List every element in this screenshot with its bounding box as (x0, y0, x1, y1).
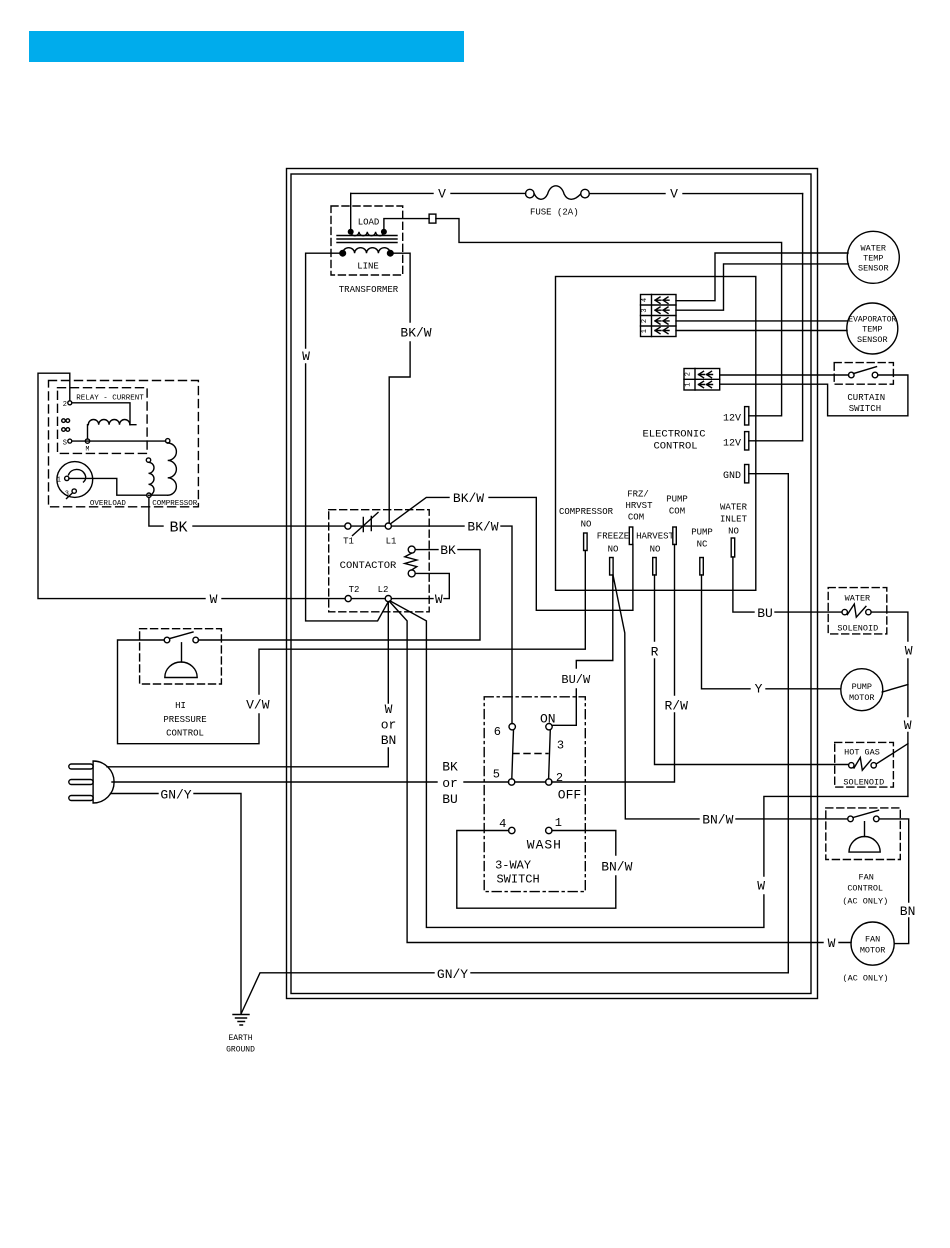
svg-text:(AC ONLY): (AC ONLY) (842, 897, 888, 907)
wire transformer load right to holder box (384, 219, 429, 232)
svg-text:CONTROL: CONTROL (166, 729, 204, 739)
wire freeze NO to 3-way switch terminal 3 (BU/W) (552, 575, 613, 725)
svg-text:4: 4 (641, 298, 649, 302)
relay - current (58, 388, 148, 454)
pin HARVEST NO (636, 532, 674, 576)
svg-text:(AC ONLY): (AC ONLY) (843, 974, 889, 984)
wire hot gas right to W bus (876, 744, 908, 764)
svg-text:4: 4 (499, 817, 506, 831)
svg-text:2: 2 (63, 401, 67, 409)
svg-text:BK: BK (169, 520, 187, 537)
svg-text:BU: BU (442, 792, 458, 807)
svg-text:GN/Y: GN/Y (160, 788, 191, 803)
wire GND to GN/Y bus (241, 474, 788, 1014)
svg-text:HRVST: HRVST (625, 501, 653, 511)
water solenoid L2V (828, 588, 887, 634)
svg-text:BN/W: BN/W (702, 813, 733, 828)
svg-text:GND: GND (723, 471, 741, 482)
svg-text:CONTACTOR: CONTACTOR (340, 560, 397, 572)
svg-text:HI: HI (175, 701, 186, 711)
terminal 1 (546, 827, 552, 833)
svg-text:5: 5 (493, 768, 500, 782)
svg-text:GROUND: GROUND (226, 1046, 255, 1055)
wire relay S to compressor start (72, 440, 166, 442)
contactor L2 terminal (385, 596, 391, 602)
wire: transformer load left to V line (350, 193, 352, 231)
fan control S4 (826, 808, 901, 907)
water temp sensor (847, 231, 899, 283)
hot gas solenoid L1V (835, 742, 894, 787)
terminal 12V upper (745, 407, 749, 425)
svg-text:NO: NO (581, 520, 592, 530)
fan motor M2 (843, 922, 895, 984)
wire L2 to fan motor (W) (390, 602, 852, 943)
svg-text:PUMP: PUMP (666, 495, 688, 505)
svg-text:2: 2 (556, 771, 563, 785)
wire L2 to plug neutral (W or BN) (107, 602, 388, 767)
power plug P1 (69, 761, 114, 803)
wire connector pin2 to evaporator sensor (676, 320, 848, 322)
wire 2-pin row1 to curtain switch right (720, 375, 908, 416)
svg-text:ELECTRONIC: ELECTRONIC (642, 429, 705, 441)
wire contactor coil top to hi pressure control (BK) (199, 550, 481, 640)
header blue bar (29, 31, 464, 62)
wire pump motor right to W bus (882, 685, 908, 693)
terminal 6 (509, 724, 515, 730)
svg-text:COMPRESSOR: COMPRESSOR (152, 500, 198, 508)
terminal 12V lower (745, 432, 749, 450)
contactor coil terminals (408, 546, 415, 553)
svg-text:NO: NO (650, 545, 661, 555)
svg-text:OFF: OFF (558, 788, 581, 803)
wire connector pin4 to water temp sensor (676, 253, 848, 301)
pin FRZ/HRVST COM (625, 490, 653, 545)
transformer secondary coil (351, 232, 384, 236)
wire connector pin1 to evaporator sensor (676, 330, 847, 332)
svg-text:WATER: WATER (845, 594, 871, 604)
wire pump NC to pump motor (Y) (702, 575, 841, 689)
svg-text:RELAY - CURRENT: RELAY - CURRENT (76, 395, 144, 403)
wire harvest NO to hot gas solenoid (R) (655, 575, 849, 765)
blade 3-2 (549, 730, 551, 779)
svg-text:6: 6 (494, 725, 501, 739)
relay spade terminals (62, 419, 66, 423)
svg-text:or: or (381, 718, 397, 733)
svg-text:SOLENOID: SOLENOID (837, 624, 878, 634)
svg-text:BN: BN (900, 904, 916, 919)
svg-text:BK/W: BK/W (453, 491, 484, 506)
curtain switch S2 (834, 363, 893, 414)
transformer dashed box (331, 206, 403, 275)
mechanical link (513, 753, 548, 755)
wire plug line to 3-way switch (BK or BU) (112, 781, 509, 783)
pin COMPRESSOR NO (559, 507, 614, 551)
svg-text:V/W: V/W (246, 698, 270, 713)
svg-text:W: W (904, 718, 912, 733)
svg-text:V: V (670, 187, 678, 202)
wire transformer line right (BK/W) down to contactor L1 (389, 253, 410, 523)
wire fuse to V bus (589, 193, 802, 195)
svg-text:12V: 12V (723, 414, 741, 425)
connector J2 2-pin (684, 369, 720, 391)
svg-text:W: W (385, 702, 393, 717)
svg-text:PUMP: PUMP (691, 528, 713, 538)
svg-text:SOLENOID: SOLENOID (843, 778, 884, 788)
wire L1 to terminal6 (BK/W lower) (391, 526, 512, 723)
svg-text:PUMP: PUMP (852, 682, 872, 692)
svg-text:W: W (757, 879, 765, 894)
svg-text:W: W (905, 644, 913, 659)
svg-text:BK/W: BK/W (400, 326, 431, 341)
relay coil (88, 420, 136, 425)
svg-text:SENSOR: SENSOR (857, 335, 888, 345)
pump motor M1 (841, 669, 883, 711)
svg-text:W: W (210, 592, 218, 607)
hi pressure control S3 (140, 629, 222, 739)
svg-text:3: 3 (65, 491, 69, 499)
wire overload to compressor common (69, 478, 147, 495)
wire water inlet NO to water solenoid (BU) (733, 557, 842, 612)
svg-text:EARTH: EARTH (228, 1034, 252, 1043)
wire T2 to relay terminal2 (W) (38, 373, 345, 598)
wire V bus down right side (802, 194, 804, 441)
svg-text:12V: 12V (723, 439, 741, 450)
fuse holder box (429, 214, 436, 223)
blade 6-5 (512, 730, 514, 779)
svg-text:BK: BK (440, 543, 456, 558)
svg-text:W: W (435, 592, 443, 607)
svg-text:CONTROL: CONTROL (653, 441, 697, 453)
wire transformer line left (W) (306, 253, 389, 621)
svg-text:1: 1 (641, 329, 649, 333)
fuse F1 (2A) (526, 186, 590, 218)
svg-text:LINE: LINE (357, 262, 379, 272)
compressor motor windings (146, 439, 197, 508)
overload protector (57, 462, 127, 508)
svg-text:PRESSURE: PRESSURE (163, 715, 206, 725)
svg-text:ON: ON (540, 712, 556, 727)
svg-text:W: W (302, 349, 310, 364)
svg-text:3: 3 (557, 739, 564, 753)
wire between 5 and 2 (515, 781, 546, 783)
wire freeze NO to fan control (BN/W) (613, 575, 848, 819)
contactor T2 terminal (345, 596, 351, 602)
relay terminal 2 (68, 401, 72, 405)
svg-text:WATER: WATER (861, 244, 887, 254)
svg-text:FAN: FAN (865, 935, 880, 945)
svg-text:FAN: FAN (859, 873, 874, 883)
wire water solenoid to W bus (871, 612, 908, 796)
wire 2-pin row2 to curtain switch left (720, 374, 849, 376)
svg-text:BU: BU (757, 606, 773, 621)
terminal GND (745, 465, 749, 483)
svg-text:LOAD: LOAD (358, 218, 380, 228)
svg-text:TRANSFORMER: TRANSFORMER (339, 285, 399, 295)
relay M terminal (85, 439, 89, 443)
svg-text:M: M (86, 446, 90, 453)
svg-text:HARVEST: HARVEST (636, 532, 674, 542)
svg-text:L2: L2 (378, 585, 389, 595)
svg-text:FREEZE: FREEZE (597, 532, 629, 542)
terminal 2 (546, 779, 552, 785)
svg-text:BN: BN (381, 733, 397, 748)
wire L2 to hot gas W return (390, 601, 908, 928)
compressor unit dashed box (49, 381, 199, 507)
svg-text:BK/W: BK/W (467, 520, 498, 535)
wire 12V lower terminal feed (749, 440, 803, 442)
svg-text:GN/Y: GN/Y (437, 967, 468, 982)
svg-text:MOTOR: MOTOR (849, 693, 875, 703)
relay contact wire (72, 403, 130, 425)
svg-text:V: V (438, 187, 446, 202)
svg-text:CONTROL: CONTROL (847, 884, 883, 894)
svg-text:EVAPORATOR: EVAPORATOR (848, 316, 896, 325)
contactor T1 terminal (345, 523, 351, 529)
svg-text:NC: NC (697, 540, 708, 550)
svg-text:HOT GAS: HOT GAS (844, 748, 880, 758)
wire contactor coil bottom to L2 line (W) (391, 573, 449, 598)
svg-text:NO: NO (608, 545, 619, 555)
wire connector pin3 to water temp sensor (676, 264, 848, 310)
svg-text:OVERLOAD: OVERLOAD (90, 500, 127, 508)
contactor main contact symbol (353, 513, 379, 536)
svg-text:COM: COM (669, 507, 685, 517)
svg-text:COM: COM (628, 513, 644, 523)
svg-text:1: 1 (57, 477, 61, 485)
wire holder box to 12V upper terminal (436, 219, 782, 416)
svg-text:NO: NO (728, 527, 739, 537)
connector J1 4-pin (641, 295, 677, 337)
svg-text:T1: T1 (343, 537, 354, 547)
svg-text:WASH: WASH (527, 838, 562, 853)
svg-text:S: S (63, 440, 67, 448)
svg-text:BK: BK (442, 760, 458, 775)
relay S terminal (68, 439, 72, 443)
evaporator temp sensor (847, 303, 898, 354)
svg-text:2: 2 (641, 319, 649, 323)
3-way switch S1 (484, 697, 585, 892)
svg-text:T2: T2 (349, 585, 360, 595)
svg-text:SWITCH: SWITCH (496, 873, 539, 887)
pin FREEZE NO (597, 532, 629, 576)
svg-text:WATER: WATER (720, 503, 748, 513)
wire pump com to 3-way switch terminal 2 (R/W) (552, 545, 675, 783)
wire fan control to fan motor (BN) (879, 819, 909, 944)
svg-text:1: 1 (555, 816, 562, 830)
wire V line to fuse (351, 192, 526, 194)
svg-text:TEMP: TEMP (862, 325, 882, 335)
svg-text:SWITCH: SWITCH (849, 404, 881, 414)
svg-text:3: 3 (641, 308, 649, 312)
svg-text:INLET: INLET (720, 515, 748, 525)
terminal 4 (509, 827, 515, 833)
svg-text:FRZ/: FRZ/ (627, 490, 649, 500)
svg-text:TEMP: TEMP (863, 254, 883, 264)
pin PUMP NC (691, 528, 713, 576)
svg-text:3-WAY: 3-WAY (495, 859, 531, 873)
electronic control U1 box (556, 277, 756, 591)
earth ground symbol (226, 1015, 255, 1055)
frame outer border (287, 169, 818, 999)
svg-text:COMPRESSOR: COMPRESSOR (559, 507, 614, 517)
contactor L1 terminal (385, 523, 391, 529)
terminal 3 (546, 724, 552, 730)
svg-text:CURTAIN: CURTAIN (847, 393, 885, 403)
transformer core (337, 236, 397, 243)
wire frz/hrvst com to contactor L1 (BK/W) (391, 497, 633, 610)
transformer T1 (331, 206, 403, 295)
svg-text:Y: Y (755, 682, 763, 697)
svg-text:BN/W: BN/W (601, 860, 632, 875)
svg-text:L1: L1 (386, 537, 397, 547)
wire compressor NO to hi pressure control loop (118, 551, 586, 744)
svg-text:W: W (828, 936, 836, 951)
wire plug ground (GN/Y) to earth (111, 794, 242, 1015)
svg-text:2: 2 (685, 372, 693, 376)
pin WATER INLET NO (720, 503, 748, 558)
wire wash loop terminal4 to terminal1 (BN/W) (457, 831, 616, 909)
svg-text:or: or (442, 776, 458, 791)
contactor coil (405, 553, 417, 570)
frame inner border (291, 174, 811, 994)
svg-text:R: R (651, 645, 659, 660)
pin PUMP COM (666, 495, 688, 545)
terminal 5 (508, 779, 514, 785)
svg-text:R/W: R/W (664, 699, 688, 714)
svg-text:MOTOR: MOTOR (860, 946, 886, 956)
svg-text:FUSE (2A): FUSE (2A) (530, 208, 579, 218)
svg-text:SENSOR: SENSOR (858, 264, 889, 274)
svg-text:1: 1 (685, 383, 693, 387)
wire compressor to contactor T1 (BK) (149, 497, 345, 526)
transformer primary coil (343, 248, 391, 253)
svg-text:BU/W: BU/W (561, 673, 591, 687)
contactor K1 (329, 510, 430, 612)
